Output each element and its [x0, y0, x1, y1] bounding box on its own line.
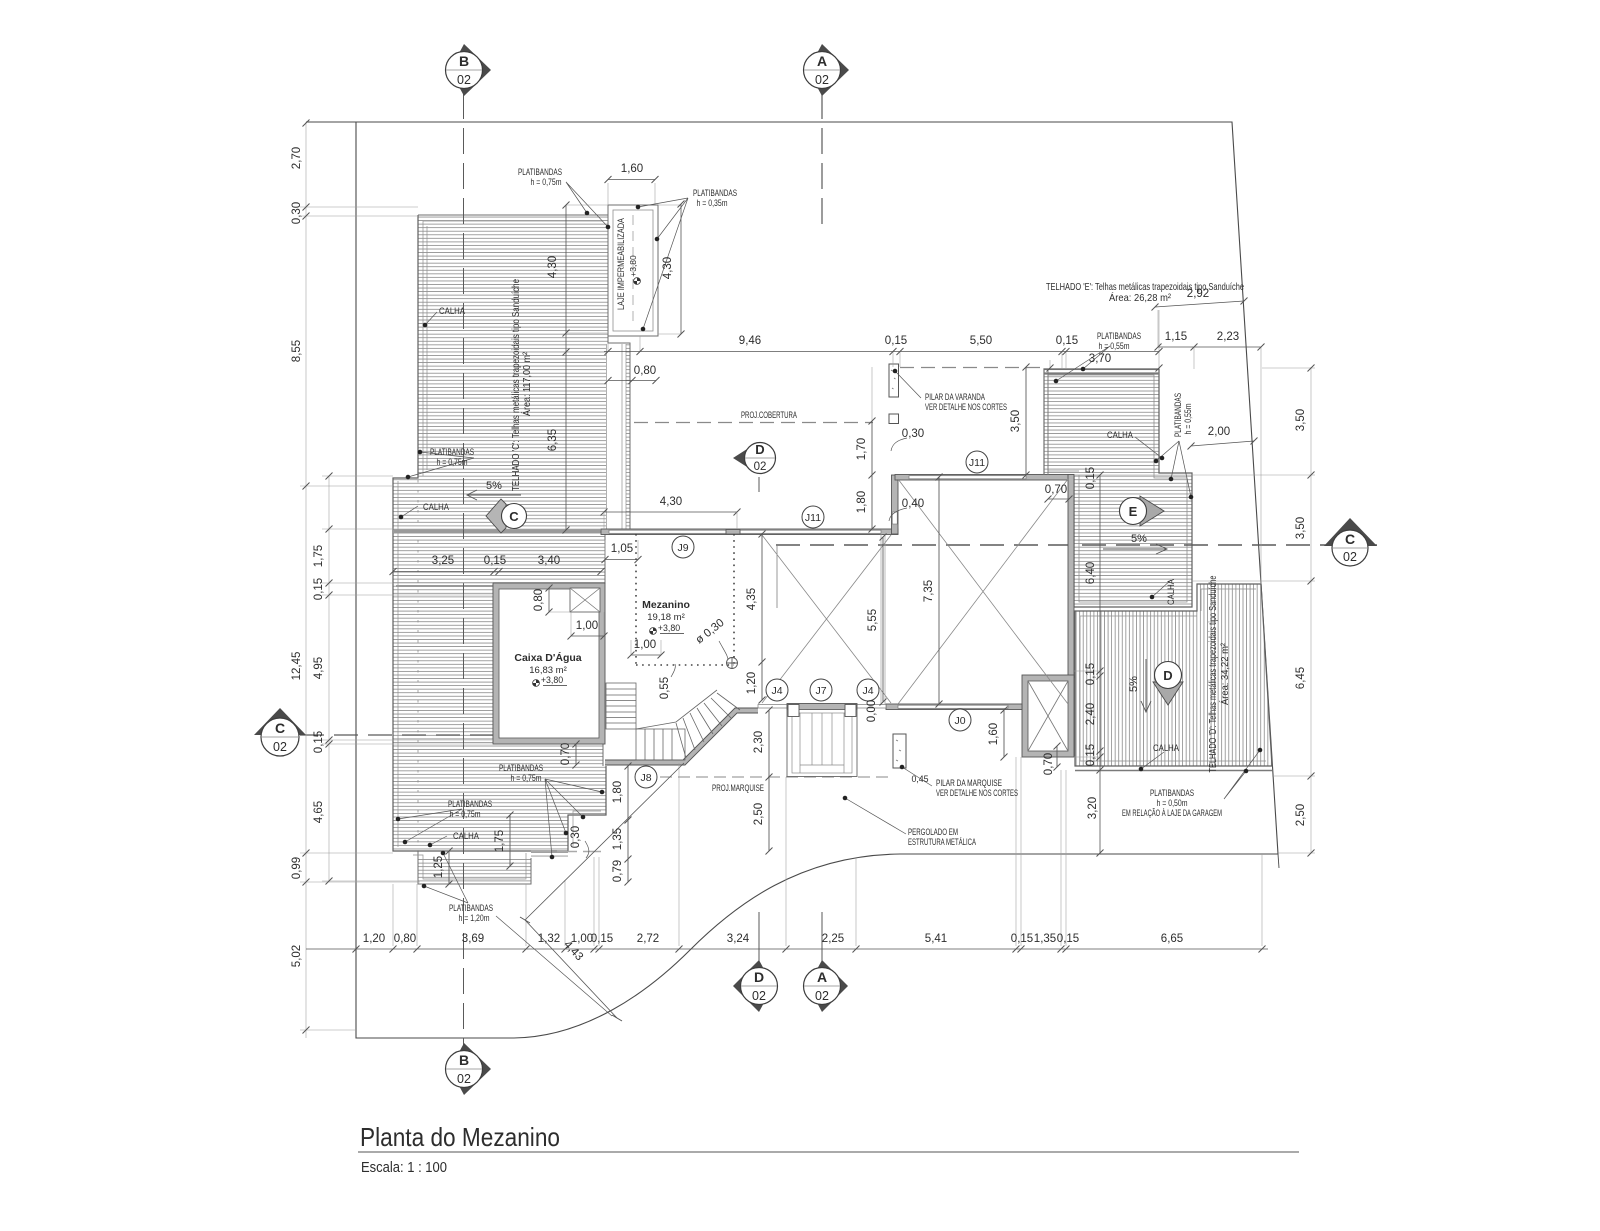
laje impermeabilizada box	[608, 205, 658, 336]
big room right wall	[1068, 475, 1074, 678]
proj.marquise dashed line	[660, 776, 893, 778]
dim 2,30 / 2,50	[766, 707, 773, 855]
dim 1,75	[507, 812, 514, 870]
svg-text:ESTRUTURA METÁLICA: ESTRUTURA METÁLICA	[908, 837, 976, 847]
svg-text:A: A	[817, 969, 827, 985]
svg-text:0,15: 0,15	[313, 731, 325, 753]
roof E serif label	[1046, 281, 1244, 304]
svg-text:02: 02	[457, 73, 471, 87]
annotation labels	[423, 167, 1222, 923]
left inner dim chain ticks	[326, 473, 333, 885]
svg-text:PLATIBANDAS: PLATIBANDAS	[499, 763, 543, 773]
svg-text:TELHADO 'D': Telhas metálicas: TELHADO 'D': Telhas metálicas trapezoida…	[1207, 575, 1219, 772]
svg-text:Área: 117,00 m²: Área: 117,00 m²	[520, 352, 533, 416]
level symbol caixa	[533, 680, 540, 687]
svg-text:4,30: 4,30	[660, 496, 682, 508]
svg-text:2,25: 2,25	[822, 933, 844, 945]
window tag J11 left	[802, 506, 824, 528]
dim 0,70 shaft	[1054, 743, 1061, 771]
svg-text:Planta do Mezanino: Planta do Mezanino	[360, 1122, 560, 1152]
section line B (vertical dashed)	[463, 93, 465, 1050]
svg-text:02: 02	[273, 740, 287, 754]
svg-text:1,00: 1,00	[634, 639, 656, 651]
room label mezanino	[642, 599, 690, 634]
dim 1,15 / 2,23	[1155, 344, 1265, 351]
svg-text:h = 0,75m: h = 0,75m	[450, 809, 481, 819]
svg-text:PLATIBANDAS: PLATIBANDAS	[518, 167, 562, 177]
svg-text:0,15: 0,15	[885, 335, 907, 347]
svg-text:1,75: 1,75	[313, 545, 325, 567]
svg-text:8,55: 8,55	[291, 340, 303, 362]
section line C right (horizontal dashed)	[776, 544, 1377, 546]
svg-text:CALHA: CALHA	[423, 502, 449, 512]
svg-text:0,15: 0,15	[1085, 663, 1097, 685]
laje label (rotated)	[616, 218, 638, 310]
svg-text:6,45: 6,45	[1295, 667, 1307, 689]
svg-text:1,00: 1,00	[576, 620, 598, 632]
svg-text:0,70: 0,70	[560, 743, 572, 765]
dim 6,40 / 0,15 / 2,40 / 0,15	[1097, 472, 1104, 857]
dim 1,05	[602, 556, 642, 563]
leaders with dots	[398, 182, 1260, 1016]
svg-text:1,80: 1,80	[612, 781, 624, 803]
svg-text:PROJ.COBERTURA: PROJ.COBERTURA	[741, 410, 797, 420]
dim 0,80 below laje	[605, 377, 660, 384]
svg-text:02: 02	[752, 989, 766, 1003]
dim labels top rows	[621, 163, 1239, 438]
svg-text:Escala: 1 : 100: Escala: 1 : 100	[361, 1160, 447, 1176]
svg-text:12,45: 12,45	[291, 652, 303, 681]
svg-text:Mezanino: Mezanino	[642, 599, 690, 611]
stair upper flight	[606, 683, 636, 729]
marquise walls and J4 windows	[605, 705, 886, 766]
dim 1,00 mezanino	[628, 652, 665, 659]
svg-text:PLATIBANDAS: PLATIBANDAS	[1097, 331, 1141, 341]
svg-text:3,25: 3,25	[432, 555, 454, 567]
svg-text:1,20: 1,20	[746, 672, 758, 694]
section marker D in plan	[733, 442, 776, 474]
lift shaft walls with X	[1022, 675, 1074, 757]
svg-text:1,15: 1,15	[1165, 331, 1187, 343]
svg-text:0,79: 0,79	[612, 860, 624, 882]
svg-text:B: B	[459, 53, 469, 69]
svg-text:02: 02	[1343, 550, 1357, 564]
dim 4,35 / 1,20	[759, 531, 766, 704]
svg-text:J7: J7	[815, 685, 826, 697]
dim 3,50 varanda	[1023, 364, 1030, 479]
svg-text:C: C	[275, 720, 285, 736]
pilar da varanda 1	[889, 364, 899, 397]
svg-text:02: 02	[815, 989, 829, 1003]
svg-text:PLATIBANDAS: PLATIBANDAS	[693, 188, 737, 198]
svg-text:0,15: 0,15	[1085, 467, 1097, 489]
dim row 3,25 / 0,15 / 3,40	[390, 568, 605, 575]
roof C right platibanda white band	[606, 344, 626, 529]
svg-text:h = 0,75m: h = 0,75m	[511, 773, 542, 783]
svg-text:J11: J11	[805, 512, 821, 524]
svg-text:+3,80: +3,80	[628, 255, 638, 277]
proj.cobertura dashed line varanda	[900, 367, 1044, 369]
mezzanine floor dotted edge	[636, 534, 734, 665]
svg-text:2,23: 2,23	[1217, 331, 1239, 343]
dim 7,35	[936, 474, 943, 708]
svg-text:0,70: 0,70	[1045, 484, 1067, 496]
svg-text:B: B	[459, 1052, 469, 1068]
dim 4,30 / 6,35 laje left	[563, 202, 570, 534]
left outer dim chain	[303, 120, 310, 1034]
dim labels bottom row	[363, 933, 1183, 963]
svg-text:1,35: 1,35	[1034, 933, 1056, 945]
svg-text:2,50: 2,50	[1295, 804, 1307, 826]
svg-text:PILAR DA VARANDA: PILAR DA VARANDA	[925, 392, 985, 402]
dim 1,00 x-box	[568, 633, 608, 640]
slope arrow C (gray) with circle	[486, 499, 527, 533]
section marker A top	[804, 44, 850, 96]
svg-text:EM RELAÇÃO À LAJE DA GARAGEM: EM RELAÇÃO À LAJE DA GARAGEM	[1122, 808, 1222, 818]
section marker C right	[1324, 518, 1377, 566]
window J7 with frame box	[787, 704, 857, 777]
svg-text:2,40: 2,40	[1085, 703, 1097, 725]
svg-text:0,55: 0,55	[659, 677, 671, 699]
svg-text:2,50: 2,50	[753, 803, 765, 825]
slope arrow E (gray) with circle	[1120, 496, 1165, 526]
wall J9-J11 (south building top wall)	[601, 529, 898, 535]
roof C serif label (rotated)	[510, 279, 533, 491]
svg-text:3,50: 3,50	[1010, 410, 1022, 432]
svg-text:5,55: 5,55	[867, 609, 879, 631]
svg-text:PROJ.MARQUISE: PROJ.MARQUISE	[712, 783, 764, 793]
svg-text:1,32: 1,32	[538, 933, 560, 945]
5% arrow roof D	[1141, 659, 1151, 712]
section marker B bottom	[446, 1043, 492, 1095]
svg-text:02: 02	[815, 73, 829, 87]
svg-text:0,15: 0,15	[1056, 335, 1078, 347]
svg-text:0,30: 0,30	[291, 202, 303, 224]
svg-text:6,40: 6,40	[1085, 562, 1097, 584]
svg-text:02: 02	[754, 461, 767, 473]
svg-text:1,80: 1,80	[856, 491, 868, 513]
svg-text:4,95: 4,95	[313, 657, 325, 679]
svg-text:2,72: 2,72	[637, 933, 659, 945]
room label caixa d'agua	[514, 651, 581, 686]
wall J0 (bottom of big room)	[886, 704, 1022, 710]
svg-text:3,69: 3,69	[462, 933, 484, 945]
svg-text:PLATIBANDAS: PLATIBANDAS	[1150, 788, 1194, 798]
svg-text:CALHA: CALHA	[1153, 743, 1179, 753]
svg-text:E: E	[1129, 504, 1138, 519]
dim 1,60 shaft	[1001, 707, 1008, 761]
svg-text:0,40: 0,40	[902, 498, 924, 510]
svg-text:19,18 m²: 19,18 m²	[647, 612, 685, 623]
svg-text:0,80: 0,80	[394, 933, 416, 945]
shaft box with X in caixa room	[570, 588, 600, 612]
right dim chain ticks	[1308, 365, 1315, 857]
dim 0,80 x-box	[546, 585, 553, 616]
svg-text:0,15: 0,15	[1085, 744, 1097, 766]
svg-text:5%: 5%	[486, 480, 502, 492]
svg-text:2,70: 2,70	[291, 147, 303, 169]
dim 2,92 slanted	[1152, 298, 1248, 311]
svg-text:PERGOLADO EM: PERGOLADO EM	[908, 827, 958, 837]
svg-text:6,35: 6,35	[547, 429, 559, 451]
dim 2,00 slanted	[1188, 438, 1258, 450]
top dim row 9,46 / 5,50	[604, 348, 1163, 355]
window tag J4 right	[857, 679, 879, 701]
window tag J7	[810, 679, 832, 701]
stair diagonal flight	[636, 690, 740, 758]
svg-text:A: A	[817, 53, 827, 69]
svg-text:0,30: 0,30	[902, 428, 924, 440]
svg-text:3,24: 3,24	[727, 933, 750, 945]
svg-text:J8: J8	[640, 772, 651, 784]
level symbol mezanino	[650, 628, 657, 635]
slope labels	[486, 480, 1147, 692]
svg-text:Área: 26,28 m²: Área: 26,28 m²	[1109, 291, 1171, 304]
extension lines (light)	[300, 122, 1315, 1038]
svg-text:0,70: 0,70	[1043, 753, 1055, 775]
svg-text:+3,80: +3,80	[541, 675, 563, 685]
svg-text:0,15: 0,15	[1057, 933, 1079, 945]
bottom dim row	[306, 946, 1268, 953]
svg-text:0,15: 0,15	[591, 933, 613, 945]
leader dots	[396, 205, 1263, 889]
svg-text:h = 0,35m: h = 0,35m	[697, 198, 728, 208]
roof D (telhado D) hatched area	[1075, 584, 1272, 771]
5% arrow roof E	[1103, 544, 1167, 554]
svg-text:2,30: 2,30	[753, 731, 765, 753]
roof E (telhado E) hatched area	[1044, 369, 1192, 607]
roof C platibanda dashed continuation line	[417, 480, 419, 851]
svg-text:J0: J0	[954, 715, 965, 727]
section marker C left	[254, 708, 306, 756]
void X cross left (over stairs area)	[762, 535, 891, 703]
svg-text:h = 0,75m: h = 0,75m	[437, 457, 468, 467]
svg-text:0,99: 0,99	[291, 857, 303, 879]
dim labels right chain (rotated)	[1295, 409, 1307, 826]
dim 4,30 laje right	[678, 201, 685, 338]
svg-text:0,30: 0,30	[570, 826, 582, 848]
svg-text:0,80: 0,80	[634, 365, 656, 377]
svg-text:3,40: 3,40	[538, 555, 560, 567]
svg-text:CALHA: CALHA	[453, 831, 479, 841]
svg-text:+3,80: +3,80	[658, 623, 680, 633]
svg-text:3,50: 3,50	[1295, 517, 1307, 539]
dim 1,25	[446, 848, 453, 888]
slope arrow D (gray) with circle	[1153, 662, 1183, 706]
svg-text:3,70: 3,70	[1089, 353, 1111, 365]
big room top wall with window J11	[895, 475, 1074, 481]
svg-text:0,80: 0,80	[533, 589, 545, 611]
svg-text:J9: J9	[677, 542, 688, 554]
svg-text:0,15: 0,15	[313, 578, 325, 600]
window tag J8	[635, 766, 657, 788]
dim 4,43 diagonal with leader	[520, 763, 684, 1021]
dim 1,60	[605, 176, 659, 183]
svg-text:1,05: 1,05	[611, 543, 633, 555]
svg-text:PLATIBANDAS: PLATIBANDAS	[448, 799, 492, 809]
wall piece with 0,40 opening	[892, 475, 899, 534]
svg-text:Caixa D'Água: Caixa D'Água	[514, 651, 581, 664]
svg-text:CALHA: CALHA	[1166, 579, 1176, 605]
section line C left (horizontal dashed)	[300, 734, 600, 736]
pilar da marquise	[893, 734, 906, 768]
svg-text:J4: J4	[862, 685, 873, 697]
svg-text:0,00: 0,00	[866, 700, 878, 722]
svg-text:PLATIBANDAS: PLATIBANDAS	[449, 903, 493, 913]
svg-text:CALHA: CALHA	[439, 306, 465, 316]
window tag J9	[672, 536, 694, 558]
svg-text:PLATIBANDAS: PLATIBANDAS	[430, 447, 474, 457]
svg-text:6,65: 6,65	[1161, 933, 1183, 945]
dim 4,30 above wall J9	[601, 509, 741, 530]
section line D (vertical)	[758, 912, 760, 968]
pilar da varanda 2	[889, 414, 899, 424]
window tag J4 left	[766, 679, 788, 701]
proj.cobertura dashed line left	[634, 422, 873, 424]
section line A (vertical dashed)	[821, 93, 823, 229]
svg-text:h = 0,50m: h = 0,50m	[1157, 798, 1188, 808]
svg-text:4,30: 4,30	[547, 256, 559, 278]
svg-text:0,15: 0,15	[484, 555, 506, 567]
section marker D bottom	[733, 960, 778, 1012]
svg-text:1,75: 1,75	[494, 830, 506, 852]
svg-text:1,60: 1,60	[988, 723, 1000, 745]
dim labels middle (mixed)	[432, 256, 1099, 882]
svg-text:3,20: 3,20	[1087, 797, 1099, 819]
title: Planta do Mezanino	[358, 1122, 1299, 1176]
property boundary	[306, 122, 1279, 1038]
5% arrow roof C	[467, 490, 521, 500]
stair lower flight	[636, 729, 685, 760]
svg-text:1,60: 1,60	[621, 163, 643, 175]
window tag J0	[949, 709, 971, 731]
roof D serif label (rotated)	[1207, 575, 1231, 772]
svg-text:4,65: 4,65	[313, 801, 325, 823]
svg-text:4,35: 4,35	[746, 588, 758, 610]
svg-text:D: D	[1163, 668, 1172, 683]
svg-text:5,02: 5,02	[291, 945, 303, 967]
svg-text:02: 02	[457, 1072, 471, 1086]
svg-text:CALHA: CALHA	[1107, 430, 1133, 440]
svg-text:h = 0,55m: h = 0,55m	[1183, 404, 1193, 435]
svg-text:h = 1,20m: h = 1,20m	[459, 913, 490, 923]
svg-text:1,35: 1,35	[612, 828, 624, 850]
svg-text:3,50: 3,50	[1295, 409, 1307, 431]
svg-text:5,50: 5,50	[970, 335, 992, 347]
svg-text:0,15: 0,15	[1011, 933, 1033, 945]
dim 5,55	[880, 534, 887, 706]
node circle at mezzanine corner	[727, 658, 738, 669]
svg-text:1,70: 1,70	[856, 438, 868, 460]
svg-text:9,46: 9,46	[739, 335, 761, 347]
svg-text:VER DETALHE NOS CORTES: VER DETALHE NOS CORTES	[925, 402, 1007, 412]
roof C (telhado C) hatched area	[393, 215, 630, 884]
section marker A bottom	[804, 960, 849, 1012]
svg-text:C: C	[509, 509, 519, 524]
svg-text:h = 0,55m: h = 0,55m	[1099, 341, 1130, 351]
big room X cross	[898, 479, 1068, 704]
caixa d'agua room walls	[493, 583, 605, 744]
svg-text:4,30: 4,30	[662, 257, 674, 279]
section marker B top	[446, 44, 492, 96]
svg-text:h = 0,75m: h = 0,75m	[531, 177, 562, 187]
dim 0,70 caixa	[573, 741, 580, 769]
roof C platibanda inner lines	[398, 221, 603, 879]
dim 1,80 / 1,35 / 0,79	[625, 763, 632, 886]
dim 3,70 ticks	[1047, 365, 1163, 372]
svg-text:D: D	[755, 442, 764, 457]
varanda edge wall (double line)	[1044, 369, 1048, 475]
svg-text:1,20: 1,20	[363, 933, 385, 945]
svg-text:VER DETALHE NOS CORTES: VER DETALHE NOS CORTES	[936, 788, 1018, 798]
window tag J11 right	[966, 451, 988, 473]
svg-text:LAJE IMPERMEABILIZADA: LAJE IMPERMEABILIZADA	[616, 218, 626, 310]
svg-text:5%: 5%	[1131, 533, 1147, 545]
svg-text:5,41: 5,41	[925, 933, 947, 945]
svg-text:PILAR DA MARQUISE: PILAR DA MARQUISE	[936, 778, 1002, 788]
svg-text:5%: 5%	[1128, 676, 1140, 692]
svg-text:1,25: 1,25	[433, 856, 445, 878]
dim 1,70 / 1,80	[869, 418, 876, 533]
svg-text:J4: J4	[771, 685, 782, 697]
svg-text:0,45: 0,45	[911, 774, 928, 784]
svg-text:Área: 34,22 m²: Área: 34,22 m²	[1218, 643, 1231, 705]
svg-text:C: C	[1345, 531, 1355, 547]
svg-text:PLATIBANDAS: PLATIBANDAS	[1173, 393, 1183, 437]
svg-text:7,35: 7,35	[923, 580, 935, 602]
svg-text:2,00: 2,00	[1208, 426, 1230, 438]
svg-text:J11: J11	[969, 457, 985, 469]
thin proj line	[776, 546, 778, 608]
level symbol laje	[634, 278, 641, 285]
svg-text:D: D	[754, 969, 764, 985]
dim labels left chains (rotated)	[291, 147, 325, 967]
dim 0,70 roof E	[1045, 496, 1073, 503]
